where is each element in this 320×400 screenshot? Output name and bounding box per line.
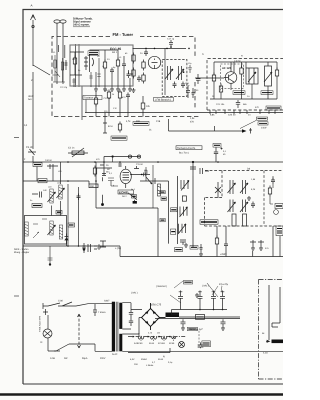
mains switch S80 [48,300,76,307]
junction dots AM block [67,180,69,182]
boxed resistor R32 [68,223,75,227]
tube ECH81 U2 [120,169,131,183]
labels left of box [185,82,199,92]
svg-text:T 50mA: T 50mA [98,311,106,314]
svg-text:Tonband-Anschl.: Tonband-Anschl. [177,147,196,150]
svg-text:C18: C18 [156,120,161,123]
osc caps [173,82,177,89]
input filter L1 [52,55,65,82]
wire y181 [23,181,89,184]
screen cap C6 [127,72,131,79]
svg-text:240 Ω symm.: 240 Ω symm. [73,24,90,27]
+G marks [115,247,121,250]
right edge verticals [273,226,280,257]
page bottom rule [0,393,283,396]
mixer resistors [212,73,215,84]
dashed drop [198,331,200,348]
resistor above [118,122,121,133]
mixer coil L8 [264,66,272,86]
electrolytic caps C50 [178,291,225,310]
svg-text:N-4C: N-4C [112,353,118,356]
triode U1b [148,56,160,68]
antenna trimmer C1 [26,146,36,155]
IF trafo F3 variable [178,224,186,234]
misc mark [100,241,106,247]
resistor R60 [196,315,205,320]
svg-text:EL84: EL84 [149,342,155,345]
screen wire y208 [96,208,158,257]
coil L23 hatched [59,225,62,239]
anode choke L2 [116,58,119,69]
antenna A1 [31,15,36,67]
boxed resistor R30 [38,179,47,183]
output stage dash-dot box [259,280,284,380]
svg-text:C31 50: C31 50 [136,163,144,166]
svg-text:3,2Ω: 3,2Ω [263,352,268,355]
cap C15 left of box [186,86,195,98]
oscillator dashed box [162,60,187,97]
svg-text:Bu ( Ton ): Bu ( Ton ) [179,151,189,154]
resistor chain left of dashed osc box R7 [132,53,135,64]
IF bottom cap [180,240,186,245]
resistor in IF [182,196,186,201]
wire y156 ECH top [104,155,141,158]
boxed labels right mid [257,117,269,130]
labels under FM box [126,114,251,132]
resistor R10 boxed [141,96,150,117]
left label near antenna [28,95,34,101]
vertical side text [38,316,41,332]
svg-text:Netz 220V 50Hz: Netz 220V 50Hz [38,316,41,332]
svg-text:1M: 1M [144,169,147,172]
cap C14 [196,74,201,84]
svg-text:C1 30: C1 30 [26,146,33,149]
svg-text:2k: 2k [112,93,114,96]
cap C22 [32,192,42,198]
det resistor right [268,186,271,197]
resistor R13 [94,96,97,107]
svg-text:S 80: S 80 [58,300,64,303]
shield interior labels [72,52,128,72]
coil L21 tuning arrow [57,188,65,198]
tastatur boxed label [0,0,1,1]
comp at drop [198,342,204,348]
Tonband boxed label [176,146,202,155]
ground g5 [132,88,136,92]
stubs below mixer box [210,110,275,114]
wire to IF [140,180,169,182]
grid components [101,157,106,206]
svg-text:ECH81: ECH81 [158,342,166,345]
svg-text:( FM-Bereich ): ( FM-Bereich ) [155,98,171,101]
pot P1 volume [68,147,88,158]
det coil L30b [240,180,248,194]
UKW box label [83,96,111,101]
misc left middle comps [33,156,112,208]
junction dots [145,48,168,50]
border frame bottom [23,383,283,385]
svg-text:A: A [31,4,33,8]
feeder wires [76,44,80,87]
bottom band labels [104,89,126,113]
wires bottom band [96,92,128,117]
IF top comps [190,161,209,176]
boxed label IF bottom [175,248,183,252]
output transformer wires [269,285,280,340]
det coil L31 [228,200,236,213]
svg-text:B250 C75: B250 C75 [150,304,162,307]
dial lamps La2 [179,342,185,348]
svg-text:FM - Tuner: FM - Tuner [113,32,134,37]
small labels in det box [251,178,256,191]
triode U1a [84,54,94,72]
voltage arrow line [78,314,81,348]
det caps right [251,202,255,209]
svg-text:C40 50: C40 50 [45,159,53,162]
svg-text:220V: 220V [100,357,106,360]
svg-text:Klang - Regler: Klang - Regler [14,251,29,254]
svg-text:UKW: UKW [28,95,34,98]
small comp B on AM wire [103,113,114,134]
svg-text:47μ+47μ: 47μ+47μ [219,283,229,286]
resistor R12 [118,90,121,101]
dark boxed label left edge [200,220,218,224]
cap C11 [126,93,130,100]
dipole trimmer caps T1 T2 [54,20,66,84]
bus tick [252,251,254,257]
svg-text:Ant.: Ant. [28,98,32,101]
neon lamp La1 [40,329,52,344]
tube label blob [88,51,99,56]
vertical wires [52,184,79,246]
dark comp C23 [56,210,62,214]
vertical drops below bus [37,162,61,184]
B+ wire top [160,310,228,318]
svg-text:1k: 1k [102,65,104,68]
cap labels [184,280,193,284]
plate wire [131,173,150,175]
resistor R9 [142,60,145,71]
boxed label right below box [266,106,281,110]
svg-text:( MV ): ( MV ) [202,285,209,288]
svg-text:B 1n: B 1n [108,125,114,128]
coupling ecap C20 [214,147,227,162]
coil L21 hatched [59,185,62,199]
det diode circle [274,210,279,215]
det coil secondary [232,214,247,226]
coupling cap C5 [122,62,126,69]
bridge rectifier Gr1 [142,303,160,330]
trafo secondary upper [119,303,122,329]
switch S601 [54,344,69,351]
pointer to label [240,121,256,129]
jack label dark box [213,144,221,148]
heater winding ECH81 [161,337,167,340]
boxed labels right edge [275,204,283,236]
transistor T1 AF126 [225,72,237,84]
coil L22 arrow [48,225,56,235]
secondary wires [122,303,283,352]
border frame [23,10,283,385]
svg-text:z.Skala: z.Skala [146,364,154,367]
caps below lower bus [181,319,226,326]
svg-text:Tastatur: Tastatur [84,97,93,100]
switch S2 [128,193,137,200]
ECC85 label U1 [110,47,121,54]
heater winding EABC80 [138,333,144,339]
svg-text:EABC80: EABC80 [134,342,143,345]
IF transformer column FM/AM [169,176,194,247]
svg-text:EM84: EM84 [141,358,147,361]
bottom band resistors under shield R11 [107,90,110,101]
det left arrows [215,182,221,198]
cap C24 [77,194,81,201]
det right wires [270,176,273,204]
dark comp [132,195,137,198]
ECH81 label [118,190,134,198]
coil L20 tuning arrow [48,192,56,202]
decoupling drop wire [48,246,53,265]
comps right of box [82,243,97,253]
fuse Si1 [93,304,106,316]
band switch box [25,216,67,245]
resistor R40 [93,166,96,177]
svg-text:( MV ): ( MV ) [131,292,138,295]
AM signal wire [85,112,283,114]
trafo secondary lower [119,334,122,352]
svg-text:0,1μ: 0,1μ [168,361,173,364]
power transformer Tr1 primary [112,302,115,352]
cathode resistor R3 [103,60,106,71]
transistor outline extension [220,89,222,93]
ratio detector dashed box [205,171,284,227]
cap C30 [134,166,146,176]
labels left FM [53,51,68,89]
resistor box 300 [89,184,98,188]
resistor R8 [132,68,135,79]
input trap C3 [65,60,68,70]
trafo core [116,302,118,352]
dark boxed labels column [160,191,177,235]
comps below det box [215,236,218,247]
junction dots on AF bus [67,161,69,163]
coil L24 hatched [25,222,28,236]
boxed label OR with cap [190,246,198,250]
svg-text:C2 12p: C2 12p [60,86,68,89]
switch contacts in box [33,219,47,238]
B+ bus left [23,246,283,257]
cap C10 [137,76,141,83]
mixer coil L7 [246,68,258,84]
svg-text:C17 4p: C17 4p [104,97,112,100]
svg-text:Rö 1: Rö 1 [112,51,118,54]
svg-text:S307: S307 [104,300,110,303]
coil L20 hatched [50,189,53,203]
antenna lower trimmer label [24,124,28,161]
svg-text:1,5k: 1,5k [104,89,108,92]
antenna switch S1 [33,65,50,149]
margin mark 2 [14,295,19,297]
ground cluster right [251,246,255,250]
filter choke Dr1 [166,313,180,318]
svg-text:3n: 3n [30,199,32,202]
svg-text:( Netzteil ): ( Netzteil ) [156,285,167,288]
mixer dark labels [233,91,273,95]
tuner shield box [70,45,165,120]
heater drops [141,340,174,342]
plate wire [133,47,187,49]
ecap C25 [65,234,69,247]
coil L22 hatched [50,221,53,235]
boxed label under FM box [133,122,149,126]
labels AM block [30,182,61,203]
svg-text:EL84: EL84 [158,358,164,361]
choke DR1 [240,66,243,77]
osc coil L5 [165,66,173,80]
bypass cap C4 [110,68,114,75]
ECH81 right chain [144,165,161,208]
cathode cap dark [133,200,137,204]
svg-text:50μA: 50μA [82,357,88,360]
IF trafo F2 variable [180,207,188,218]
svg-text:25V: 25V [134,363,138,366]
resistor R9b [142,73,145,84]
speaker LS1 [272,340,284,344]
FM-Bereich boxed label [154,98,174,102]
boxed resistor on bus [33,163,42,167]
secondary caps C52 C53 [129,309,133,326]
det coil L30 [228,180,236,194]
svg-text:Rö 2: Rö 2 [122,195,127,198]
FM tuner dashed enclosure [52,37,199,117]
svg-text:ECH81: ECH81 [119,190,129,194]
bottom small labels [130,355,173,367]
extra G mark [97,244,101,250]
margin mark [14,137,19,139]
ECH81 extra parts [108,157,122,187]
cap C46 [200,244,203,252]
transistor inner dashed outline [221,64,244,89]
det coil L31b [240,200,248,213]
drop from tastatur [85,100,87,113]
note text block [73,18,93,27]
extra shield columns [72,58,100,87]
svg-text:AF 126: AF 126 [222,66,232,70]
boxed label right of heater [187,327,197,330]
link wire tuner to mixer [195,77,224,79]
osc cap C20a [188,65,191,73]
boxed resistor R31 [32,204,42,208]
svg-text:S 08: S 08 [50,357,55,360]
wires inside shield [59,45,134,87]
svg-text:EF89: EF89 [169,342,175,345]
svg-text:C17 1p: C17 1p [167,38,175,41]
heater winding EF89 [172,337,176,339]
heater return wire [128,348,170,353]
svg-text:1/4W: 1/4W [261,127,267,130]
mixer wires [210,62,277,108]
arrow comp [146,177,155,184]
svg-text:C22 40: C22 40 [228,114,236,117]
IF trafo F1 variable [181,180,189,191]
mixer dashed enclosure [207,59,283,111]
svg-text:1M: 1M [157,332,160,335]
boxed label Telefunken [202,341,211,347]
svg-text:6,3V: 6,3V [130,358,135,361]
tube name labels [134,342,175,345]
B+ wire lower [139,317,240,334]
ground row under B+ area [195,293,199,297]
svg-text:C21 10n: C21 10n [216,103,225,106]
cap C8 [144,50,148,57]
mains wires to trafo [48,304,112,352]
labels near bus left [45,158,110,174]
IF out arrow wire [169,119,253,134]
mixer bottom labels [212,95,259,109]
bottom labels row [50,357,106,360]
grid resistor R2 [73,56,76,67]
cap C9 [169,40,173,48]
heater line 6,3V dash-dot [128,336,186,338]
mains plug stub [43,303,48,315]
svg-text:C2 1n: C2 1n [68,147,75,150]
main AF bus line [23,161,283,163]
osc coil L6 [176,66,184,80]
section text label [14,248,29,254]
heater winding EL84 [150,337,157,340]
ground row under shield [103,87,107,91]
left input boxed label [111,136,127,140]
